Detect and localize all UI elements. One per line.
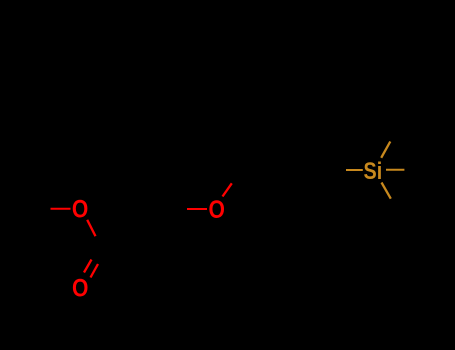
svg-text:Si: Si — [364, 157, 383, 184]
bond C#C-Si (left bond into Si, olive half) — [346, 169, 363, 171]
bond Si-CH3 down-right (olive half) — [382, 183, 391, 199]
bond C=O double line a (red half) — [84, 260, 92, 273]
bond Si-CH3 up-right (olive half) — [381, 142, 390, 158]
bond CH2-O3 (left bond into ether O, red half) — [187, 208, 207, 210]
bond C=O double line b (red half) — [91, 264, 99, 278]
bond Si-CH3 right (olive half) — [386, 169, 404, 171]
svg-text:O: O — [72, 274, 88, 302]
bond O3-CH2 (up-right from ether O, red half) — [223, 183, 232, 196]
svg-text:O: O — [72, 195, 88, 223]
svg-text:O: O — [208, 195, 224, 223]
bond O1-C(=O) (ester O to carbonyl carbon, red half) — [87, 220, 95, 236]
bond CH3-O (ester methyl to O1, red half) — [51, 208, 71, 210]
